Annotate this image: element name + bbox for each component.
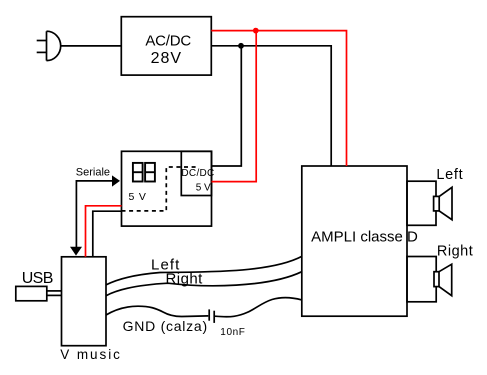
svg-text:Right: Right bbox=[166, 271, 204, 288]
svg-text:AC/DC: AC/DC bbox=[145, 33, 191, 50]
svg-text:5 V: 5 V bbox=[196, 183, 211, 194]
svg-text:5 V: 5 V bbox=[129, 191, 147, 203]
svg-text:GND (calza): GND (calza) bbox=[123, 318, 208, 334]
svg-text:USB: USB bbox=[22, 270, 53, 287]
svg-text:Right: Right bbox=[437, 243, 473, 259]
svg-text:DC/DC: DC/DC bbox=[181, 168, 214, 179]
svg-text:Left: Left bbox=[436, 167, 463, 183]
svg-text:V music: V music bbox=[60, 347, 122, 362]
svg-text:AMPLI classe D: AMPLI classe D bbox=[311, 228, 418, 245]
svg-text:Seriale: Seriale bbox=[76, 166, 110, 178]
svg-text:28V: 28V bbox=[151, 50, 182, 67]
svg-text:10nF: 10nF bbox=[220, 327, 245, 338]
